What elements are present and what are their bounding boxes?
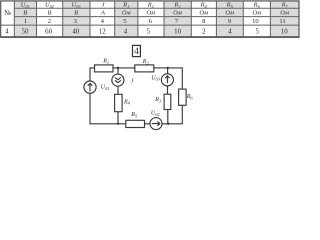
svg-text:4: 4 [228,28,232,35]
svg-text:5: 5 [255,28,259,35]
svg-text:5: 5 [146,28,150,35]
svg-text:U02: U02 [151,111,161,117]
voltage source U02 [150,118,162,130]
svg-text:60: 60 [45,28,52,35]
svg-text:U01: U01 [101,85,110,91]
wire U01 to bottom-left corner [90,93,126,124]
wire R5 to U02 [145,123,151,125]
node B top junction R2-U03 [167,67,169,69]
resistor R3 [164,94,171,109]
svg-text:R2: R2 [142,59,150,65]
svg-text:4: 4 [124,28,128,35]
resistor R1 [95,65,114,72]
node D bottom junction R3-U02 [167,123,169,125]
voltage source U03 [161,74,173,86]
svg-text:Ом: Ом [173,10,182,17]
svg-text:J: J [131,78,134,84]
svg-text:10: 10 [281,28,288,35]
svg-text:Ом: Ом [199,10,208,17]
svg-text:Ом: Ом [122,10,131,17]
resistor R2 [135,65,154,72]
svg-text:R3: R3 [154,97,162,103]
resistor R4 [115,94,123,111]
wire R1 to R2 [113,67,135,69]
svg-text:12: 12 [99,28,106,35]
svg-text:U02: U02 [45,2,55,9]
node A top junction R1-R2-J [117,67,119,69]
resistor R5 [126,120,145,127]
svg-text:А: А [100,10,105,17]
parameter table [0,1,299,37]
svg-text:10: 10 [252,18,259,25]
wire U03 to R3 [167,86,169,94]
wire top node to U03 [167,68,169,74]
svg-text:R6: R6 [186,94,194,100]
wire top node to J [117,68,119,74]
svg-text:R6: R6 [253,2,261,9]
svg-text:11: 11 [279,18,285,25]
svg-text:40: 40 [72,28,79,35]
svg-text:4: 4 [101,18,105,25]
svg-text:J: J [102,2,106,9]
wire R4 to bottom node [117,112,119,124]
wire R2 to top-right corner [154,68,183,89]
voltage source U01 [84,81,96,93]
svg-text:U03: U03 [151,75,161,81]
svg-text:4: 4 [134,46,139,56]
svg-text:Ом: Ом [146,10,155,17]
svg-text:2: 2 [202,28,206,35]
current source J [112,74,124,86]
svg-text:R5: R5 [130,112,138,118]
wire R3 to bottom node [167,110,169,124]
svg-text:Ом: Ом [252,10,261,17]
svg-text:8: 8 [202,18,206,25]
svg-text:R2: R2 [147,2,155,9]
svg-text:Ом: Ом [280,10,289,17]
node C bottom junction R4-R5 [117,122,119,124]
svg-text:50: 50 [22,28,29,35]
svg-text:В: В [23,10,27,17]
svg-text:В: В [47,10,51,17]
wire top-left corner to R1 [90,68,95,81]
wire U02 to bottom-right corner [162,105,182,124]
svg-text:№: № [4,9,11,17]
wire J to R4 [117,86,119,94]
svg-text:2: 2 [48,18,51,25]
svg-text:В: В [74,10,78,17]
svg-text:Ом: Ом [225,10,234,17]
svg-text:6: 6 [149,18,153,25]
resistor R6 [179,89,187,105]
variant number box 4 [133,45,141,56]
svg-text:4: 4 [5,28,9,35]
svg-text:R4: R4 [123,99,131,105]
svg-text:R1: R1 [102,59,109,65]
svg-text:R4: R4 [200,2,208,9]
svg-text:1: 1 [24,18,27,25]
svg-text:10: 10 [174,28,181,35]
